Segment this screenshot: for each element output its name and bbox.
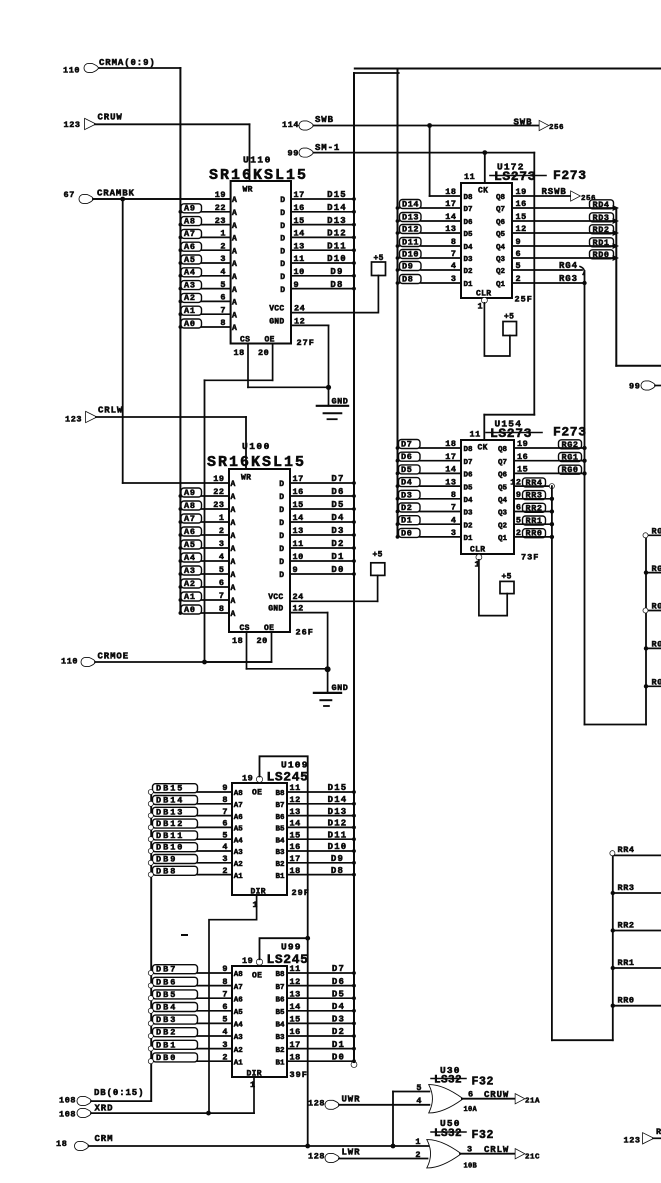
svg-text:DB11: DB11 [156,831,184,841]
svg-text:24: 24 [293,592,304,602]
svg-text:RD3: RD3 [593,213,610,223]
svg-text:A3: A3 [234,1034,244,1042]
svg-text:Q6: Q6 [496,219,506,227]
svg-text:A1: A1 [184,306,196,316]
svg-text:A: A [232,235,237,244]
svg-text:A: A [231,519,236,528]
svg-text:A: A [231,506,236,515]
svg-text:A: A [231,571,236,580]
svg-text:CRM: CRM [95,1134,114,1144]
svg-text:B6: B6 [275,996,285,1004]
svg-text:RG3: RG3 [559,274,578,284]
svg-text:D9: D9 [331,854,344,864]
svg-text:B2: B2 [275,861,285,869]
svg-text:12: 12 [294,316,305,326]
svg-text:LS32: LS32 [434,1075,462,1087]
svg-text:8: 8 [220,318,226,328]
svg-text:110: 110 [61,657,78,667]
svg-text:D: D [280,286,285,295]
svg-text:A1: A1 [234,1059,244,1067]
svg-text:19: 19 [517,439,528,449]
svg-text:Q3: Q3 [498,510,508,518]
svg-text:1: 1 [478,302,484,312]
svg-text:RG0: RG0 [652,678,661,688]
svg-text:DB13: DB13 [156,807,184,817]
svg-text:A8: A8 [184,501,196,511]
svg-text:A8: A8 [234,790,244,798]
svg-text:CLR: CLR [470,546,485,555]
svg-text:RG4: RG4 [652,527,661,537]
svg-text:SR16KSL15: SR16KSL15 [207,454,306,471]
svg-text:Q2: Q2 [498,522,508,530]
svg-text:WR: WR [243,186,253,195]
svg-text:5: 5 [222,1015,228,1025]
svg-text:A5: A5 [234,826,244,834]
svg-text:5: 5 [516,515,522,525]
svg-text:128: 128 [308,1152,325,1162]
svg-text:12: 12 [290,977,301,987]
svg-text:23: 23 [213,500,224,510]
svg-text:20: 20 [258,348,269,358]
svg-text:DB12: DB12 [156,819,184,829]
svg-text:A: A [231,532,236,541]
svg-text:RR0: RR0 [618,996,635,1006]
svg-text:A6: A6 [184,527,196,537]
svg-text:A: A [231,558,236,567]
svg-text:9: 9 [516,490,522,500]
svg-text:Q4: Q4 [498,497,508,505]
svg-text:18: 18 [234,348,245,358]
svg-text:UWR: UWR [342,1095,361,1105]
svg-text:D14: D14 [327,203,347,213]
svg-text:Q1: Q1 [498,535,508,543]
svg-text:19: 19 [242,774,253,784]
svg-text:A: A [232,222,237,231]
svg-text:9: 9 [293,565,299,575]
svg-text:A7: A7 [234,984,243,992]
svg-text:D0: D0 [332,1052,345,1062]
svg-text:4: 4 [219,552,225,562]
svg-text:3: 3 [222,1040,228,1050]
svg-text:DB15: DB15 [156,784,184,794]
svg-text:20: 20 [257,636,268,646]
svg-text:B2: B2 [275,1047,285,1055]
svg-text:123: 123 [64,120,81,130]
svg-text:A4: A4 [234,837,244,845]
svg-text:11: 11 [290,783,301,793]
svg-text:D5: D5 [331,500,344,510]
svg-text:A2: A2 [184,579,196,589]
svg-text:D7: D7 [464,206,473,214]
svg-text:F32: F32 [472,1129,495,1142]
svg-text:D8: D8 [464,194,474,202]
svg-text:99: 99 [629,382,640,392]
svg-text:D3: D3 [401,490,412,500]
svg-text:U100: U100 [242,441,271,452]
svg-text:123: 123 [624,1136,641,1146]
svg-text:B4: B4 [275,1022,285,1030]
svg-text:5: 5 [220,280,226,290]
svg-text:RD1: RD1 [593,238,610,248]
svg-text:RG2: RG2 [562,440,579,450]
svg-text:2: 2 [219,526,225,536]
svg-text:14: 14 [290,1002,301,1012]
svg-text:A3: A3 [234,849,244,857]
svg-text:D: D [280,196,285,205]
svg-text:D10: D10 [402,250,419,260]
svg-text:DB9: DB9 [156,855,177,865]
svg-text:5: 5 [222,830,228,840]
svg-text:D14: D14 [328,795,348,805]
svg-text:CRLW: CRLW [484,1145,509,1155]
svg-text:A: A [231,584,236,593]
svg-text:D: D [280,235,285,244]
svg-text:A: A [231,493,236,502]
svg-text:11: 11 [294,254,305,264]
svg-text:D2: D2 [464,522,474,530]
svg-text:22: 22 [215,203,226,213]
svg-text:A1: A1 [234,873,244,881]
svg-text:OE: OE [252,789,262,798]
svg-text:18: 18 [445,187,456,197]
svg-text:4: 4 [220,267,226,277]
svg-text:B6: B6 [275,814,285,822]
svg-text:D: D [280,247,285,256]
svg-text:D13: D13 [402,213,419,223]
svg-text:DB8: DB8 [156,866,177,876]
svg-text:19: 19 [242,956,253,966]
svg-text:B3: B3 [275,1034,285,1042]
svg-text:D1: D1 [401,516,412,526]
svg-text:D6: D6 [401,452,412,462]
svg-text:17: 17 [290,854,301,864]
svg-text:RR2: RR2 [526,503,543,513]
svg-text:DB1: DB1 [156,1040,177,1050]
svg-text:D: D [279,480,284,489]
svg-text:B8: B8 [275,790,285,798]
svg-text:A: A [232,299,237,308]
svg-text:11: 11 [290,964,301,974]
svg-text:22: 22 [213,487,224,497]
svg-text:DB5: DB5 [156,990,177,1000]
svg-text:6: 6 [220,293,226,303]
svg-text:128: 128 [308,1099,325,1109]
svg-text:2: 2 [220,241,226,251]
svg-text:10: 10 [293,552,304,562]
svg-text:12: 12 [293,604,304,614]
svg-text:RG4: RG4 [559,261,578,271]
svg-text:114: 114 [282,120,299,130]
svg-text:RR4: RR4 [526,478,543,488]
svg-text:D4: D4 [332,1002,345,1012]
svg-text:A9: A9 [184,204,196,214]
svg-text:DB2: DB2 [156,1028,177,1038]
svg-text:D8: D8 [402,275,413,285]
svg-text:R: R [656,1127,661,1137]
svg-text:B1: B1 [275,873,285,881]
svg-text:VCC: VCC [269,305,284,314]
svg-text:RR4: RR4 [618,845,635,855]
svg-text:A5: A5 [184,255,196,265]
svg-text:DB3: DB3 [156,1015,177,1025]
svg-text:D: D [279,558,284,567]
svg-text:25F: 25F [515,295,533,305]
svg-text:LS245: LS245 [267,952,309,967]
svg-text:D9: D9 [402,262,413,272]
svg-text:D11: D11 [328,830,348,840]
svg-text:A4: A4 [184,268,196,278]
svg-text:D: D [279,506,284,515]
svg-text:A4: A4 [184,553,196,563]
svg-text:D3: D3 [331,526,344,536]
svg-text:GND: GND [269,317,284,326]
svg-text:U110: U110 [243,155,272,166]
svg-text:A: A [232,209,237,218]
svg-text:A0: A0 [184,319,196,329]
svg-text:D: D [279,519,284,528]
svg-text:RG0: RG0 [562,465,579,475]
svg-text:A: A [232,273,237,282]
svg-text:16: 16 [293,487,304,497]
svg-text:13: 13 [293,526,304,536]
svg-text:SM-1: SM-1 [315,143,340,153]
svg-text:A4: A4 [234,1022,244,1030]
svg-text:3: 3 [220,254,226,264]
svg-text:D6: D6 [464,472,474,480]
svg-text:B3: B3 [275,849,285,857]
svg-text:F273: F273 [553,425,587,440]
svg-text:A: A [231,597,236,606]
svg-text:RG1: RG1 [562,453,579,463]
svg-text:18: 18 [232,636,243,646]
svg-text:15: 15 [517,465,528,475]
svg-text:RR3: RR3 [526,491,543,501]
svg-text:D6: D6 [331,487,344,497]
svg-text:RR0: RR0 [526,529,543,539]
svg-text:Q7: Q7 [496,206,505,214]
svg-text:8: 8 [219,604,225,614]
svg-text:2: 2 [516,528,522,538]
svg-text:D2: D2 [331,539,344,549]
svg-text:1: 1 [415,1137,421,1147]
svg-text:4: 4 [222,842,228,852]
svg-text:A: A [231,480,236,489]
svg-text:9: 9 [222,964,228,974]
svg-text:LWR: LWR [342,1148,361,1158]
svg-text:5: 5 [416,1083,422,1093]
svg-text:B7: B7 [275,984,284,992]
svg-text:SWB: SWB [514,118,533,128]
svg-text:17: 17 [293,474,304,484]
svg-text:D4: D4 [464,244,474,252]
svg-text:D11: D11 [402,238,419,248]
svg-text:9: 9 [222,783,228,793]
svg-text:15: 15 [294,216,305,226]
svg-text:OE: OE [264,624,274,633]
svg-text:F32: F32 [472,1076,495,1089]
svg-text:23: 23 [215,216,226,226]
svg-text:LS32: LS32 [434,1128,462,1140]
svg-text:D13: D13 [327,216,347,226]
svg-text:WR: WR [241,474,251,483]
svg-text:OE: OE [252,972,262,981]
svg-text:18: 18 [290,1052,301,1062]
svg-text:8: 8 [222,977,228,987]
svg-text:DB(0:15): DB(0:15) [94,1088,144,1098]
svg-text:123: 123 [65,415,82,425]
svg-text:6: 6 [222,1002,228,1012]
svg-text:DB0: DB0 [156,1053,177,1063]
svg-text:DB7: DB7 [156,965,177,975]
svg-text:A2: A2 [234,861,244,869]
svg-text:GND: GND [332,683,349,693]
svg-text:2: 2 [415,1150,421,1160]
svg-text:4: 4 [222,1027,228,1037]
svg-text:Q1: Q1 [496,281,506,289]
svg-text:A: A [232,286,237,295]
svg-text:D4: D4 [401,478,412,488]
svg-text:A: A [232,324,237,333]
svg-text:D10: D10 [327,254,347,264]
svg-text:256: 256 [549,124,564,132]
svg-text:Q5: Q5 [498,484,508,492]
svg-text:DB10: DB10 [156,843,184,853]
svg-text:A: A [232,260,237,269]
svg-text:RD0: RD0 [593,250,610,260]
svg-text:3: 3 [222,854,228,864]
svg-text:10B: 10B [464,1163,478,1171]
svg-text:7: 7 [222,989,228,999]
svg-text:SWB: SWB [315,115,334,125]
svg-text:SR16KSL15: SR16KSL15 [209,167,308,184]
svg-text:5: 5 [219,565,225,575]
svg-text:RSWB: RSWB [542,187,567,197]
svg-text:11: 11 [470,430,481,440]
svg-text:RR3: RR3 [618,883,635,893]
svg-text:CRUW: CRUW [98,113,123,123]
svg-text:CK: CK [478,187,488,196]
svg-text:D15: D15 [327,190,347,200]
svg-text:29F: 29F [292,888,310,898]
svg-text:Q3: Q3 [496,256,506,264]
svg-text:D0: D0 [331,565,344,575]
svg-text:RR1: RR1 [526,516,543,526]
svg-text:A6: A6 [234,814,244,822]
svg-text:Q8: Q8 [498,446,508,454]
svg-text:LS245: LS245 [267,770,309,785]
svg-text:16: 16 [290,842,301,852]
svg-text:3: 3 [467,1144,473,1154]
svg-text:D8: D8 [331,866,344,876]
svg-text:A9: A9 [184,488,196,498]
svg-text:14: 14 [290,819,301,829]
svg-text:D5: D5 [401,465,412,475]
svg-text:39F: 39F [290,1070,308,1080]
svg-text:A7: A7 [184,514,196,524]
svg-text:D: D [280,260,285,269]
svg-text:D11: D11 [327,241,347,251]
svg-text:DB6: DB6 [156,977,177,987]
svg-text:27F: 27F [297,338,315,348]
svg-text:B4: B4 [275,837,285,845]
svg-text:17: 17 [290,1040,301,1050]
svg-text:Q8: Q8 [496,194,506,202]
svg-text:2: 2 [222,1052,228,1062]
svg-text:D2: D2 [464,268,474,276]
svg-text:6: 6 [516,503,522,513]
svg-text:21A: 21A [525,1098,540,1106]
svg-text:B5: B5 [275,826,285,834]
svg-text:A7: A7 [184,229,196,239]
svg-text:6: 6 [222,819,228,829]
svg-text:LS273: LS273 [494,169,536,184]
svg-text:D1: D1 [332,1040,345,1050]
svg-text:D13: D13 [328,807,348,817]
svg-text:A0: A0 [184,605,196,615]
svg-text:8: 8 [222,795,228,805]
svg-text:GND: GND [268,605,283,614]
svg-text:CK: CK [478,444,488,453]
svg-text:D2: D2 [401,503,412,513]
svg-text:12: 12 [510,477,521,487]
svg-text:D12: D12 [327,229,347,239]
svg-text:B1: B1 [275,1059,285,1067]
svg-text:RR2: RR2 [618,920,635,930]
svg-text:B8: B8 [275,971,285,979]
svg-text:CRLW: CRLW [98,406,123,416]
svg-text:DB14: DB14 [156,796,184,806]
svg-text:U99: U99 [281,942,302,953]
svg-text:D7: D7 [332,964,345,974]
svg-text:16: 16 [517,452,528,462]
svg-text:13: 13 [290,989,301,999]
svg-text:A8: A8 [184,216,196,226]
svg-text:CRUW: CRUW [484,1090,509,1100]
svg-text:4: 4 [416,1096,422,1106]
svg-text:9: 9 [294,280,300,290]
svg-text:24: 24 [294,304,305,314]
svg-text:RG3: RG3 [652,564,661,574]
svg-text:RG1: RG1 [652,640,661,650]
svg-text:13: 13 [294,241,305,251]
svg-text:D10: D10 [328,842,348,852]
svg-text:A: A [232,247,237,256]
svg-text:D: D [279,545,284,554]
svg-text:A: A [232,311,237,320]
svg-text:A3: A3 [184,566,196,576]
svg-text:D6: D6 [332,977,345,987]
svg-text:Q4: Q4 [496,244,506,252]
svg-text:D12: D12 [328,819,348,829]
svg-text:DB4: DB4 [156,1003,177,1013]
svg-text:D0: D0 [401,528,412,538]
svg-text:D: D [279,571,284,580]
svg-text:99: 99 [288,149,299,159]
svg-text:6: 6 [219,578,225,588]
svg-text:+5: +5 [373,551,383,560]
svg-text:11: 11 [293,539,304,549]
svg-text:CRMOE: CRMOE [98,652,130,662]
svg-text:16: 16 [290,1027,301,1037]
svg-text:6: 6 [468,1089,474,1099]
svg-text:D6: D6 [464,219,474,227]
svg-text:A1: A1 [184,592,196,602]
svg-text:D7: D7 [464,459,473,467]
svg-text:18: 18 [56,1139,67,1149]
svg-text:D12: D12 [402,225,419,235]
svg-text:10A: 10A [464,1106,478,1114]
svg-text:A: A [231,545,236,554]
